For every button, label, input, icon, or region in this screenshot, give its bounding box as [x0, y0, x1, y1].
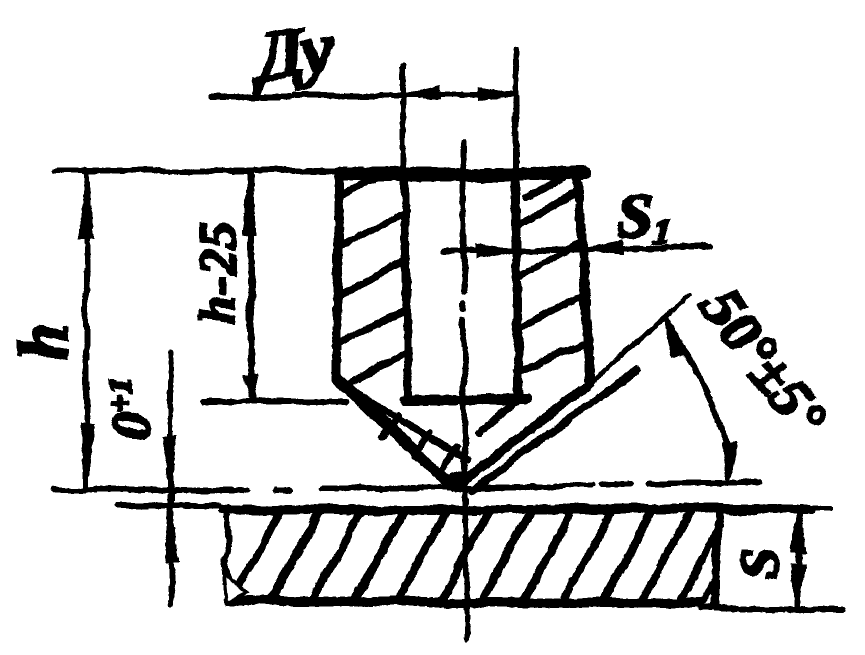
dimension h-25: bottom extension line — [204, 401, 346, 402]
pipe top left corner blob — [341, 169, 353, 181]
svg-text:h: h — [8, 324, 81, 361]
dimension h: top arrowhead — [80, 171, 92, 237]
dimension S1: right arrowhead (points left) — [585, 241, 622, 253]
right wall hatch 1 — [526, 174, 575, 197]
dimension Dy: extension line left — [403, 65, 404, 172]
bore bottom right corner blob — [515, 394, 526, 405]
dimension h-25: bottom arrowhead — [245, 378, 257, 399]
plate bottom edge right thin part — [700, 608, 843, 611]
left wall hatch 1 — [341, 177, 379, 197]
bore bottom left corner blob — [403, 394, 414, 405]
svg-text:Ду: Ду — [245, 7, 339, 97]
dimension Dy: left arrowhead — [404, 87, 440, 99]
plate hatch 11 — [641, 510, 691, 601]
plate hatch 4 — [355, 510, 405, 601]
dimension S: dimension line — [798, 507, 800, 610]
weld bevel edge thin extension (50 deg line) — [586, 296, 691, 387]
svg-text:0+1: 0+1 — [102, 377, 161, 439]
horizontal centerline middle segment — [322, 486, 592, 489]
dimension 0+1: dimension line — [170, 352, 171, 604]
right wall hatch 4 — [516, 295, 584, 329]
plate left corner notch — [224, 572, 247, 603]
plate hatch 2 — [270, 510, 320, 601]
weld bevel outer edge (thick) — [455, 387, 586, 487]
svg-text:50°±5°: 50°±5° — [689, 276, 839, 448]
tip band rung 1 — [382, 415, 397, 436]
pipe top face (thick bar) — [346, 174, 586, 175]
plate top edge right thin part — [805, 505, 830, 510]
plate hatch 5 — [398, 510, 448, 601]
horizontal centerline dot — [276, 487, 289, 493]
plate bottom edge — [228, 601, 700, 603]
left wall hatch 2 — [338, 210, 406, 248]
angle dimension arc — [667, 321, 729, 462]
plate hatch 12 — [679, 532, 717, 602]
dimension S: bottom arrowhead — [794, 565, 805, 608]
pipe right inner wall — [516, 172, 518, 400]
angle arc top arrowhead — [665, 317, 685, 356]
pipe bore bottom face (thick) — [404, 399, 526, 400]
plate hatch 9 — [563, 510, 613, 601]
dimension S: top arrowhead — [794, 508, 805, 551]
tip band inner line (left) — [356, 394, 468, 460]
dimension h: bottom arrowhead — [81, 424, 93, 489]
dimension h-25: dimension line — [251, 172, 252, 400]
pipe left inner wall — [404, 172, 408, 400]
plate top edge — [223, 509, 810, 510]
horizontal centerline right segment — [650, 483, 760, 484]
vertical centerline (dash-dot) — [463, 141, 464, 292]
dimension h-25: top arrowhead — [244, 172, 256, 234]
plate hatch right boundary — [714, 512, 720, 607]
tip band rung 2 — [415, 433, 430, 455]
plate left break edge — [223, 507, 231, 601]
right wall hatch 2 — [516, 189, 579, 227]
svg-text:S1: S1 — [618, 183, 670, 251]
dimension h: dimension line — [86, 170, 87, 490]
pipe right outer wall — [578, 173, 589, 383]
pipe left outer wall — [336, 172, 340, 380]
dimension S1: dimension line — [445, 247, 711, 252]
pipe top right corner blob — [577, 169, 590, 182]
left wall hatch 3 — [336, 260, 406, 298]
plate hatch 13 stub — [703, 577, 716, 601]
dimension Dy: extension line right — [513, 50, 519, 172]
right wall hatch 3 — [516, 241, 582, 279]
svg-text:S: S — [730, 548, 792, 579]
plate hatch 1 — [231, 510, 281, 601]
dimension S1: left arrowhead (points right) — [477, 246, 515, 258]
tip band rung 3 — [444, 448, 457, 471]
horizontal centerline dash — [602, 482, 633, 488]
dimension 0+1: upper arrowhead (down) — [165, 438, 176, 489]
dimension Dy: right arrowhead — [479, 88, 515, 100]
weld bevel lower edge — [472, 369, 638, 490]
left wall hatch 5 — [344, 351, 408, 389]
pipe left chamfer slope to tip — [336, 379, 452, 484]
plate hatch 6 — [440, 510, 490, 601]
dimension Dy: dimension line — [210, 94, 515, 97]
horizontal centerline left segment — [55, 487, 247, 493]
plate top edge left extension line — [119, 503, 219, 509]
wire: top extension line of pipe top (h dimension reference) — [55, 168, 347, 174]
plate hatch 3 — [312, 510, 362, 601]
angle arc bottom arrowhead — [722, 444, 734, 482]
svg-text:h-25: h-25 — [190, 222, 247, 324]
plate hatch 8 — [522, 510, 572, 601]
plate hatch 7 — [482, 510, 532, 601]
root face line right — [478, 399, 519, 434]
right wall hatch 5 — [516, 343, 586, 372]
weld tip junction blob — [449, 472, 469, 488]
plate hatch 10 — [603, 510, 653, 601]
dimension 0+1: lower arrowhead (up) — [167, 506, 178, 561]
left wall hatch 4 — [335, 308, 407, 346]
